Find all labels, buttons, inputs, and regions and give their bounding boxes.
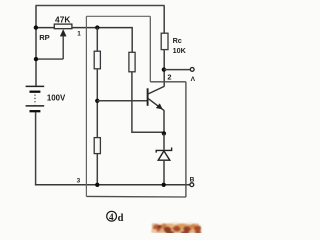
battery short plate 2 [30,110,41,112]
wire zener to ground rail [163,160,165,185]
guard loop wire middle horizontal [150,81,186,83]
node dot rail-zener [162,183,166,187]
wire node1 down to R1a [96,28,98,52]
resistor R1a body [94,51,100,69]
wire R1a to base node to R1b [96,69,98,138]
zener diode D1 [156,148,171,161]
battery short plate 1 [30,91,41,93]
caption circled 4 [107,211,117,222]
transistor emitter arrow [156,104,162,109]
wire corner node1 to R2 [131,27,133,52]
svg-text:RP: RP [39,33,50,42]
potentiometer wiper arrow [36,30,66,59]
guard loop wire inner right vertical [149,16,151,82]
guard loop wire bottom [86,195,185,198]
decorative photo strip bottom right [151,222,203,235]
node dot emitter junction [162,131,166,135]
transistor collector arm [148,86,164,94]
wire battery negative down [35,112,37,185]
transistor Q1 base bar [147,88,149,106]
wire emitter to zener [163,134,165,150]
terminal A circle [190,68,194,72]
wire base [97,100,147,102]
resistor R2 body [129,52,135,72]
wire top supply rail [35,5,164,7]
guard loop wire top [86,15,150,17]
svg-text:3: 3 [77,178,81,185]
wire battery positive vertical [35,6,37,86]
battery long plate 1 [26,85,45,87]
wire emitter down [163,110,165,134]
node dot base junction [95,99,99,103]
wire Rc to node 2 [163,50,165,87]
wire drop to Rc [163,6,165,34]
transistor emitter arm [148,98,164,110]
wire ground rail [36,183,191,186]
terminal B circle [190,183,194,187]
svg-text:Λ: Λ [191,76,196,83]
guard loop wire outer right vertical [185,82,187,197]
wire node2 to terminal A [164,69,190,71]
svg-text:Rc: Rc [173,36,182,45]
svg-text:B: B [190,176,195,183]
resistor R1b body [94,138,100,154]
node dot node 1 [95,25,99,29]
svg-text:d: d [118,213,124,224]
svg-text:4: 4 [109,212,114,222]
node dot battery-RP [34,25,38,29]
wire R2 down to emitter rail [132,72,164,132]
guard loop wire left vertical [85,16,87,196]
potentiometer RP body [36,24,132,29]
svg-text:47K: 47K [55,15,71,25]
svg-text:100V: 100V [47,93,66,102]
battery long plate 2 [26,105,45,107]
svg-text:2: 2 [167,72,171,81]
svg-text:10K: 10K [173,46,187,55]
battery BT1 100V [26,86,45,111]
svg-text:1: 1 [77,30,81,37]
battery dotted middle [34,95,36,105]
node dot wiper-battery [34,57,38,61]
resistor Rc body [161,33,168,49]
wire R1b to ground rail [96,154,98,185]
node dot node 2 [162,67,166,71]
node dot rail-R1b [95,183,99,187]
